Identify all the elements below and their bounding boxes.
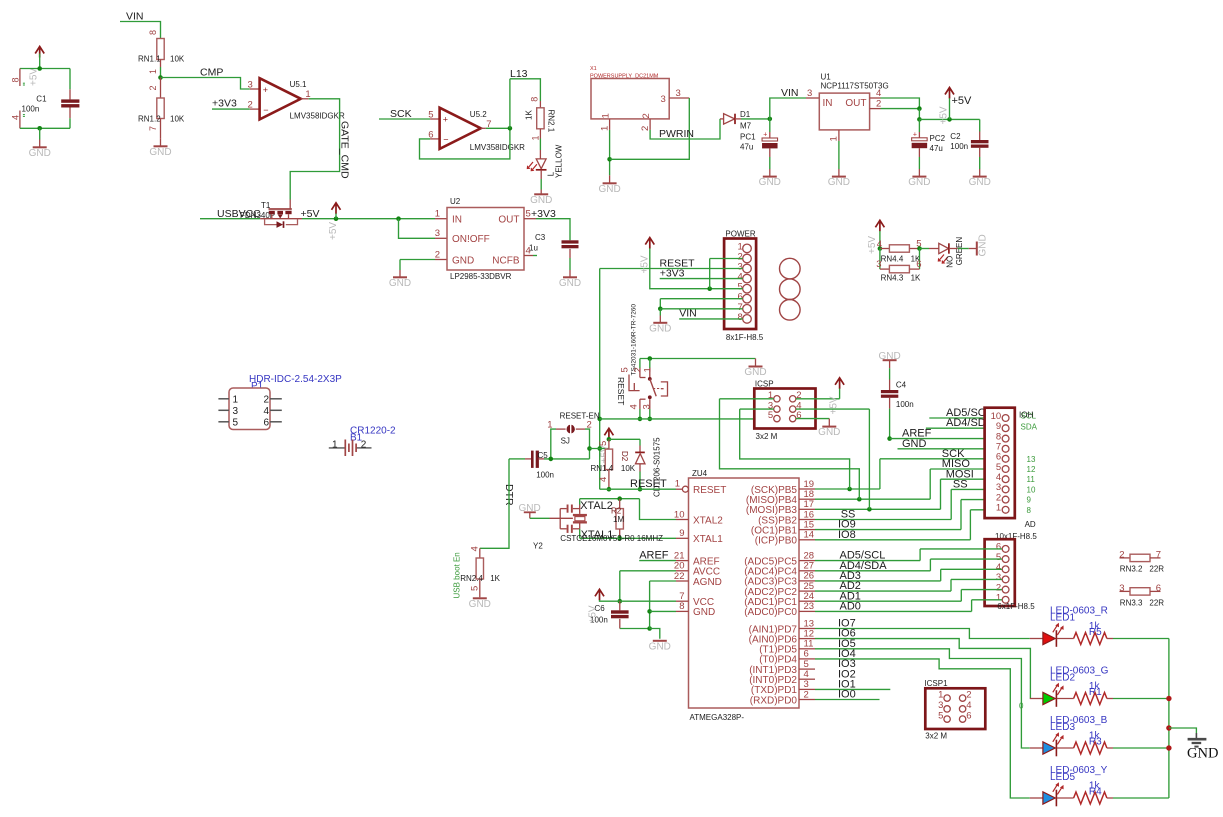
pin LED ON cathode	[949, 248, 958, 250]
pin ICSP1.5	[944, 716, 950, 722]
pin RN4.3 left	[880, 268, 890, 270]
pin R3 right	[1107, 747, 1113, 749]
pin C5 left	[525, 458, 531, 460]
wire D2 top	[639, 439, 641, 445]
wire NCFB tick	[533, 255, 537, 257]
wire to LED ON	[920, 248, 930, 250]
wire +5V stem	[949, 98, 951, 119]
pin POWER.4	[743, 274, 752, 283]
power +5V ICSP	[835, 378, 844, 389]
pin ICSP.2	[790, 396, 796, 402]
pin AD.6	[1002, 455, 1009, 462]
clk marks C1 pin4	[23, 115, 25, 117]
svg-text:9: 9	[1027, 496, 1032, 505]
ground PC1	[759, 169, 781, 188]
junction gnd	[658, 307, 663, 312]
pin ZU4.10	[676, 519, 689, 521]
wire gnd to crystal	[530, 517, 550, 519]
svg-text:+5V: +5V	[939, 106, 950, 124]
power +5V U1	[945, 88, 954, 99]
capacitor C4	[881, 390, 898, 398]
wire RESET row to ICSP	[600, 418, 774, 420]
wire L13	[510, 79, 541, 101]
wire MOSI row	[941, 478, 1002, 480]
wire POWER2 branch	[709, 259, 711, 289]
pin U2.4	[524, 255, 533, 257]
wire AD4/SDA row	[815, 570, 930, 572]
wire to gnd sym	[650, 629, 660, 639]
wire out down	[918, 109, 920, 120]
wire D1 out	[741, 118, 770, 120]
svg-text:RN4.4: RN4.4	[881, 255, 904, 264]
svg-text:VIN: VIN	[126, 11, 144, 23]
wire AD1 row	[815, 600, 961, 602]
pin RN1.4 top	[608, 439, 610, 449]
pin ICSP.5	[774, 415, 780, 421]
LED L yellow	[536, 159, 547, 170]
pin RN2.4.4	[479, 548, 481, 558]
svg-text:RN3.3: RN3.3	[1120, 598, 1143, 607]
capacitor C6	[611, 610, 629, 618]
wire SCK row	[880, 458, 1002, 460]
junction U5.2 out	[508, 126, 513, 131]
svg-text:+: +	[763, 132, 767, 139]
svg-text:3: 3	[876, 259, 881, 270]
wire AD1 to pin	[961, 589, 1002, 591]
svg-text:GND: GND	[969, 177, 991, 188]
pin LED3 cathode	[1057, 747, 1074, 749]
wire +5V rail	[302, 218, 435, 220]
svg-text:5: 5	[428, 110, 433, 121]
pin POWER.7	[743, 305, 752, 314]
wire X1.1 to gnd	[609, 130, 611, 175]
svg-text:LED5: LED5	[1050, 772, 1075, 783]
wire +5V stem	[879, 231, 881, 249]
wire AD1 up	[960, 590, 962, 602]
wire arrow stem	[335, 214, 337, 219]
svg-text:4: 4	[11, 115, 21, 120]
svg-text:5: 5	[526, 209, 531, 220]
pin ZU4.18	[799, 498, 815, 500]
svg-text:1: 1	[643, 367, 654, 372]
svg-text:8: 8	[530, 97, 540, 102]
junction RN1.4 bottom	[607, 487, 612, 492]
wire VCC	[600, 600, 677, 601]
svg-text:GATE_CMD: GATE_CMD	[339, 121, 351, 179]
wire AVCC	[620, 570, 676, 572]
pin 6x1F.2	[1002, 586, 1009, 593]
op-amp U5.2	[440, 108, 481, 149]
wire R3 to bus	[1113, 747, 1169, 749]
wire to gnd	[399, 260, 401, 271]
svg-text:+5V: +5V	[588, 605, 599, 623]
wire AD3 up	[940, 569, 942, 581]
junction R2 top	[617, 496, 622, 501]
wire PB4 row	[815, 498, 930, 500]
svg-text:LED2: LED2	[1050, 673, 1075, 684]
wire AD4/SDA stub	[926, 427, 1002, 429]
svg-text:XTAL2: XTAL2	[580, 500, 613, 512]
pin P1.3	[218, 409, 229, 411]
wire right branch	[919, 249, 921, 270]
pin C1.8	[19, 69, 21, 87]
svg-text:3: 3	[676, 88, 681, 99]
clk marks C1 pin8	[23, 83, 25, 85]
led arrows LED1	[1053, 623, 1064, 635]
wire button pin4	[639, 409, 641, 419]
svg-text:2: 2	[248, 100, 253, 111]
ground earth symbol	[1187, 733, 1218, 761]
wire AD5/SCL stub	[929, 417, 1002, 419]
svg-text:LP2985-33DBVR: LP2985-33DBVR	[450, 272, 512, 281]
svg-text:1: 1	[531, 135, 541, 140]
svg-text:C4: C4	[896, 381, 907, 390]
svg-text:+5V: +5V	[29, 68, 40, 86]
pin LED2 anode	[1030, 698, 1043, 700]
wire GND to AD7	[898, 448, 1002, 450]
svg-text:3: 3	[435, 228, 440, 239]
svg-text:RN1.1: RN1.1	[138, 54, 161, 63]
wire +5V stem	[39, 54, 41, 69]
mounting hole	[780, 258, 801, 279]
svg-text:+5V: +5V	[640, 255, 651, 273]
wire to earth	[1169, 728, 1197, 733]
wire PWRIN	[650, 119, 720, 139]
svg-text:GND: GND	[598, 184, 620, 195]
pin AD.3	[1002, 486, 1009, 493]
pin PC2 bottom	[918, 148, 920, 157]
svg-text:NCFB: NCFB	[492, 255, 520, 266]
ground C3	[559, 270, 581, 289]
wire PC2 gnd	[918, 157, 920, 169]
wire AD5/SCL to pin	[920, 548, 1002, 550]
pin U1.2	[870, 108, 881, 110]
svg-text:GREEN: GREEN	[955, 237, 964, 266]
pin ZU4.20	[676, 570, 689, 572]
LED LED3	[1043, 740, 1057, 757]
ground RN2.4	[469, 598, 491, 610]
junction +5V arrow	[334, 216, 339, 221]
svg-text:3: 3	[248, 80, 253, 91]
wire IO5 to LED3	[815, 649, 1030, 748]
wire PC1 to gnd	[769, 157, 771, 169]
wire AD3 row	[815, 580, 941, 582]
wire +3V3 to POWER4	[660, 278, 743, 280]
wire +3V3 to C3	[536, 219, 570, 241]
svg-text:C1: C1	[36, 94, 47, 103]
power +5V VCC	[595, 589, 604, 600]
pin ICSP.1	[774, 396, 780, 402]
svg-text:+: +	[443, 115, 448, 125]
resistor R3	[1074, 742, 1107, 754]
svg-text:+: +	[263, 85, 268, 95]
pin ICSP1.1	[944, 695, 950, 701]
svg-text:10K: 10K	[621, 464, 636, 473]
wire LED to gnd	[958, 248, 969, 250]
connector P1	[229, 388, 270, 430]
wire DTR down	[480, 459, 509, 548]
wire AD2 to pin	[951, 578, 1002, 580]
junction X1 gnd	[607, 157, 612, 162]
pin ZU4.8	[676, 610, 689, 612]
ground RN1.2	[149, 139, 171, 158]
pin ZU4.3	[799, 688, 815, 690]
connector X1	[591, 79, 669, 119]
svg-text:U5.2: U5.2	[470, 110, 487, 119]
pin RN1.2.2	[160, 78, 162, 99]
svg-text:U5.1: U5.1	[290, 80, 307, 89]
svg-text:GND: GND	[744, 367, 766, 378]
svg-text:10K: 10K	[170, 114, 185, 123]
junction bus LED2	[1166, 696, 1171, 701]
pin P1.2	[270, 398, 282, 400]
wire AD5/SCL up	[919, 549, 921, 561]
wire PB5 row	[815, 488, 880, 490]
junction MISO	[857, 497, 862, 502]
wire button pin1	[649, 359, 651, 369]
pin AD.9	[1002, 425, 1009, 432]
wire AD0 row	[815, 610, 972, 612]
connector 6x1F	[985, 539, 1015, 606]
wire D2 to RESET	[639, 472, 641, 490]
svg-text:C2: C2	[950, 132, 961, 141]
pin POWER.5	[743, 284, 752, 293]
pin R2 bottom	[619, 529, 621, 538]
connector ICSP	[754, 389, 815, 429]
pin ICSP.3	[774, 406, 780, 412]
wire C6 gnd	[620, 628, 650, 630]
resistor RN1.2	[157, 98, 164, 119]
junction VCC C6	[618, 599, 623, 604]
pin POWER.1	[743, 244, 752, 253]
wire to POWER2	[710, 258, 743, 260]
wire C4 to AREF	[889, 409, 891, 439]
pin U2.3	[435, 237, 447, 239]
pin C6 top	[619, 601, 621, 610]
wire LED to gnd	[540, 179, 542, 190]
wire RESET vertical	[599, 269, 601, 490]
svg-text:IO8: IO8	[838, 529, 856, 541]
svg-text:2: 2	[148, 85, 158, 90]
wire C2 gnd	[979, 157, 981, 169]
wire XTAL2 to pin10	[640, 499, 677, 520]
svg-text:IN: IN	[452, 215, 462, 226]
wire AD4/SDA to pin	[930, 558, 1002, 560]
pin RN3.3 right	[1150, 590, 1161, 592]
resistor RN1.1	[157, 39, 164, 60]
wire IO4 to LED5	[815, 659, 1030, 798]
wire AD0 to pin	[972, 599, 1002, 601]
wire ICSP2 +5V	[796, 398, 840, 400]
svg-text:XTAL1: XTAL1	[693, 534, 723, 545]
svg-text:IOH: IOH	[1019, 411, 1033, 420]
wire AD3 to pin	[941, 568, 1002, 570]
junction MOSI	[867, 507, 872, 512]
wire L13 vertical	[509, 79, 511, 129]
svg-text:L13: L13	[510, 68, 528, 80]
svg-text:GND: GND	[469, 599, 491, 610]
svg-text:PC2: PC2	[930, 134, 946, 143]
junction AGND	[647, 626, 652, 631]
svg-text:GND: GND	[649, 323, 671, 334]
pin C4 bottom	[889, 398, 891, 409]
resistor RN2.4	[476, 558, 483, 579]
mounting hole	[780, 300, 801, 321]
pin PC2 top	[918, 132, 920, 138]
svg-text:1: 1	[601, 113, 612, 118]
junction bus gnd	[1166, 725, 1171, 730]
svg-text:2: 2	[804, 689, 809, 700]
svg-text:2: 2	[1119, 549, 1124, 560]
pin P1.1	[218, 398, 229, 400]
pin U5.2.5	[430, 118, 440, 120]
svg-text:3: 3	[661, 94, 666, 105]
pin U1.4	[870, 97, 881, 99]
svg-text:+3V3: +3V3	[660, 267, 685, 279]
wire SS down	[950, 489, 952, 519]
pin U5.1.2	[250, 108, 260, 110]
svg-text:1K: 1K	[490, 574, 500, 583]
wire U1 tab gnd	[838, 141, 840, 169]
wire AREF to AD8	[890, 438, 1002, 440]
svg-text:+: +	[913, 131, 917, 138]
pin P1.6	[270, 421, 282, 423]
op-amp U5.1	[260, 78, 301, 119]
wire GND pin	[650, 610, 676, 612]
led arrows ON	[938, 255, 948, 264]
svg-text:3: 3	[233, 406, 239, 417]
svg-text:1: 1	[148, 69, 158, 74]
svg-text:3x2 M: 3x2 M	[756, 432, 778, 441]
pin RN4.3 right	[909, 268, 919, 270]
pin U5.1.1	[301, 98, 309, 100]
polarized capacitor PC1	[762, 132, 778, 149]
wire IO8 down	[969, 510, 971, 540]
svg-text:RESET: RESET	[693, 485, 726, 496]
svg-text:PWRIN: PWRIN	[659, 128, 694, 140]
LED LED2	[1043, 690, 1057, 707]
svg-text:+5V: +5V	[328, 222, 339, 240]
pin 6x1F.1	[1002, 596, 1009, 603]
junction D2 bottom	[638, 487, 643, 492]
svg-text:ON: ON	[945, 256, 954, 268]
pin U2.5	[524, 218, 536, 220]
svg-text:11: 11	[1027, 475, 1036, 484]
wire SCK down	[879, 459, 881, 489]
wire left branch	[879, 249, 881, 270]
pin U2.1	[435, 218, 447, 220]
svg-text:GND: GND	[149, 147, 171, 158]
ground C4	[878, 351, 900, 368]
svg-text:SS: SS	[953, 479, 968, 491]
wire SJ right	[585, 429, 590, 459]
pin ZU4.11	[799, 648, 815, 650]
svg-text:5: 5	[469, 586, 480, 591]
pin C5 right	[539, 458, 544, 460]
svg-text:+5V: +5V	[829, 396, 840, 414]
junction GND pin	[647, 609, 652, 614]
pin LED5 cathode	[1057, 797, 1074, 799]
pin ICSP.6	[790, 415, 796, 421]
diode D2	[635, 446, 645, 472]
wire VIN POWER8	[679, 318, 743, 320]
svg-text:(RXD)PD0: (RXD)PD0	[750, 695, 798, 706]
ground LED	[530, 190, 552, 206]
wire arrow stem	[839, 389, 841, 399]
svg-text:23: 23	[804, 601, 815, 612]
svg-text:1: 1	[829, 136, 840, 141]
wire button top gnd	[640, 358, 756, 360]
svg-text:TS42031-160R-TR-7260: TS42031-160R-TR-7260	[631, 304, 638, 376]
wire SS row	[951, 488, 1002, 490]
resistor RN1.4	[605, 449, 612, 470]
svg-text:RN1.4: RN1.4	[591, 464, 614, 473]
wire gnd POWER7	[660, 308, 742, 310]
svg-text:8: 8	[1027, 506, 1032, 515]
junction RN4.4	[878, 246, 883, 251]
svg-text:8: 8	[11, 77, 21, 82]
led arrows LED5	[1053, 782, 1064, 794]
wire C1 bottom	[20, 127, 70, 129]
svg-text:1M: 1M	[613, 515, 624, 524]
svg-text:GND: GND	[452, 255, 474, 266]
wire AREF	[639, 560, 676, 562]
svg-text:10K: 10K	[170, 54, 185, 63]
svg-text:5: 5	[233, 417, 239, 428]
junction U2 branch	[396, 216, 401, 221]
svg-text:−: −	[263, 105, 268, 115]
svg-text:6: 6	[966, 710, 971, 721]
pin U5.2.7	[481, 127, 486, 129]
wire MOSI down	[940, 479, 942, 509]
ground ICSP	[818, 419, 840, 439]
ground C6	[649, 641, 671, 653]
svg-text:USB boot En: USB boot En	[453, 552, 462, 598]
ground U2	[389, 270, 411, 289]
svg-text:GND: GND	[29, 148, 51, 159]
mounting hole	[780, 279, 801, 300]
svg-text:8: 8	[148, 30, 158, 35]
wire IO6 to LED2	[815, 639, 1030, 699]
pin R4 right	[1107, 797, 1113, 799]
wire to D2	[609, 438, 640, 440]
resistor R2	[616, 509, 623, 529]
svg-text:3: 3	[807, 88, 812, 99]
junction SJ2	[587, 446, 592, 451]
resistor R4	[1074, 792, 1107, 804]
svg-text:VIN: VIN	[781, 87, 799, 99]
pin 6x1F.4	[1002, 566, 1009, 573]
svg-text:GND: GND	[559, 278, 581, 289]
svg-text:14: 14	[804, 530, 815, 541]
IC U1	[819, 93, 869, 130]
svg-text:YELLOW: YELLOW	[555, 144, 564, 178]
svg-text:GND: GND	[389, 278, 411, 289]
wire RESET to POWER3	[600, 268, 743, 270]
svg-text:2: 2	[640, 126, 651, 131]
pin ZU4.13	[799, 628, 815, 630]
svg-text:SCK: SCK	[390, 108, 412, 120]
svg-text:IO0: IO0	[838, 689, 856, 701]
wire C3 to gnd	[569, 258, 571, 270]
wire gnd POWER6	[660, 298, 742, 300]
pin LED2 cathode	[1057, 698, 1074, 700]
pin ZU4.5	[799, 668, 815, 670]
pin RN2.1.8	[539, 101, 541, 108]
svg-text:2: 2	[264, 394, 270, 405]
pin ICSP1.2	[959, 695, 965, 701]
junction RESET row	[597, 417, 602, 422]
